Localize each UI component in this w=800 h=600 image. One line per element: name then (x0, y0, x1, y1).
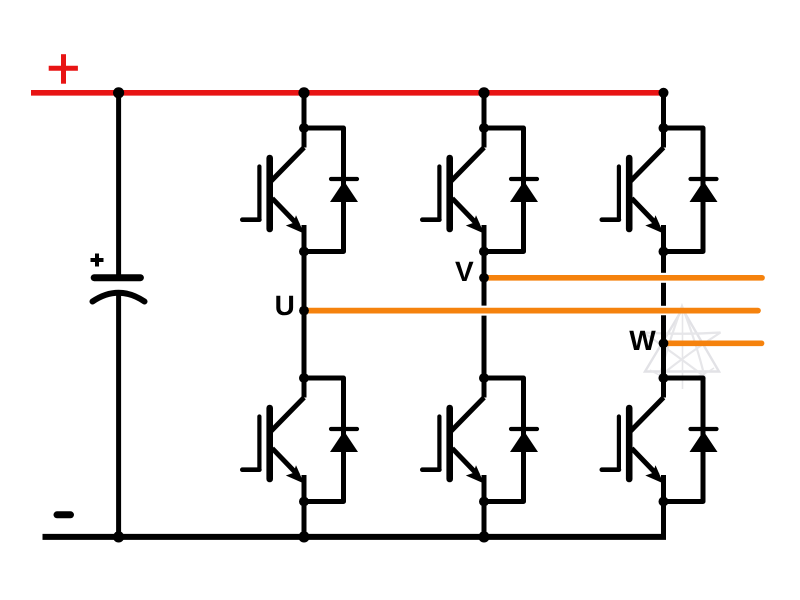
junction Q4 emitter/D4 (299, 497, 309, 507)
wire capacitor bottom lead (116, 295, 121, 537)
transistor Q1 (IGBT) (242, 128, 304, 252)
node U (299, 306, 309, 316)
junction Q1 emitter/D1 (299, 247, 309, 257)
wire leg2 top stub (482, 93, 487, 128)
plus label (+) of DC bus (49, 54, 78, 83)
diode D2 (anti-parallel freewheeling) (484, 128, 538, 252)
junction Q2 emitter/D2 (479, 247, 489, 257)
label node U (276, 296, 293, 316)
wire leg2 mid upper (482, 252, 487, 306)
junction bus+/leg2 (478, 87, 489, 98)
label node W (629, 331, 655, 350)
transistor Q6 (IGBT) (602, 378, 664, 502)
positive DC bus (red, node +) (31, 90, 666, 96)
junction Q3 collector/D3 (659, 123, 669, 133)
minus label (-) of DC bus (57, 511, 71, 518)
junction Q3 emitter/D3 (659, 247, 669, 257)
wire capacitor top lead (116, 93, 121, 277)
wire leg3 top stub (661, 93, 666, 128)
watermark logo (faint) (644, 306, 721, 389)
wire leg3 mid seg2 (661, 283, 666, 306)
negative DC bus (node -) (43, 534, 667, 540)
transistor Q5 (IGBT) (422, 378, 484, 502)
wire leg3 mid seg1 (661, 252, 666, 273)
junction bus+/leg3 (659, 88, 669, 98)
wire leg1 midpoint (302, 252, 307, 379)
phase V output line (488, 275, 762, 281)
diode D6 (anti-parallel freewheeling) (664, 378, 718, 502)
junction bus-/leg1 (298, 531, 309, 542)
junction Q5 emitter/D5 (479, 497, 489, 507)
phase W output line (668, 340, 762, 346)
junction bus-/capacitor (113, 531, 124, 542)
junction Q1 collector/D1 (299, 123, 309, 133)
junction Q4 collector/D4 (299, 373, 309, 383)
transistor Q2 (IGBT) (422, 128, 484, 252)
wire leg2 bottom stub (482, 502, 487, 537)
wire leg3 bottom stub (661, 502, 666, 537)
diode D5 (anti-parallel freewheeling) (484, 378, 538, 502)
node W (659, 338, 669, 348)
junction bus-/leg2 (478, 531, 489, 542)
phase U output line (307, 308, 759, 314)
node V (479, 273, 489, 283)
diode D1 (anti-parallel freewheeling) (304, 128, 358, 252)
wire leg2 mid lower (482, 316, 487, 378)
junction Q5 collector/D5 (479, 373, 489, 383)
junction bus+/leg1 (298, 87, 309, 98)
diode D4 (anti-parallel freewheeling) (304, 378, 358, 502)
capacitor C1 (DC-link electrolytic) (91, 254, 145, 302)
junction bus+/capacitor (113, 87, 124, 98)
junction Q2 collector/D2 (479, 123, 489, 133)
wire leg1 top stub (302, 93, 307, 128)
label node V (455, 262, 473, 281)
junction Q6 collector/D6 (659, 373, 669, 383)
diode D3 (anti-parallel freewheeling) (664, 128, 718, 252)
wire leg3 mid seg3 (661, 315, 666, 378)
transistor Q4 (IGBT) (242, 378, 304, 502)
junction Q6 emitter/D6 (659, 497, 669, 507)
transistor Q3 (IGBT) (602, 128, 664, 252)
wire leg1 bottom stub (302, 502, 307, 537)
